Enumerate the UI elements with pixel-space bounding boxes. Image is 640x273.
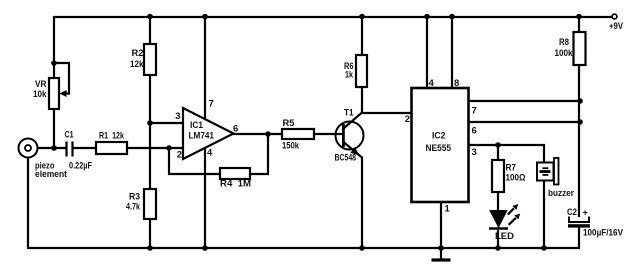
- svg-text:7: 7: [209, 99, 214, 110]
- svg-text:R8: R8: [559, 37, 569, 48]
- svg-text:IC1: IC1: [190, 120, 204, 131]
- svg-text:+: +: [583, 208, 588, 218]
- svg-text:buzzer: buzzer: [548, 188, 574, 199]
- svg-text:2: 2: [405, 114, 410, 125]
- svg-text:NE555: NE555: [426, 143, 452, 154]
- svg-text:8: 8: [454, 78, 459, 89]
- svg-text:3: 3: [472, 147, 477, 158]
- svg-text:R5: R5: [283, 118, 296, 129]
- svg-text:4.7k: 4.7k: [126, 202, 141, 213]
- svg-text:3: 3: [175, 111, 180, 122]
- svg-text:1: 1: [445, 204, 451, 215]
- svg-text:100Ω: 100Ω: [506, 173, 526, 184]
- svg-text:C1: C1: [65, 130, 75, 141]
- svg-text:150k: 150k: [282, 141, 300, 152]
- svg-text:12k: 12k: [130, 59, 144, 70]
- svg-text:7: 7: [472, 106, 477, 117]
- svg-text:R4 1M: R4 1M: [220, 179, 251, 190]
- svg-text:R1 12k: R1 12k: [99, 131, 125, 142]
- svg-text:1k: 1k: [345, 70, 354, 81]
- svg-text:10k: 10k: [33, 89, 47, 100]
- svg-text:T1: T1: [344, 108, 354, 119]
- svg-text:+9V: +9V: [609, 21, 623, 31]
- svg-text:4: 4: [429, 78, 435, 89]
- svg-text:100µF/16V: 100µF/16V: [583, 228, 624, 239]
- svg-text:BC548: BC548: [335, 153, 357, 164]
- svg-text:4: 4: [207, 148, 213, 159]
- svg-text:6: 6: [233, 124, 238, 135]
- svg-text:0.22µF: 0.22µF: [69, 161, 92, 172]
- svg-text:R2: R2: [132, 48, 144, 59]
- svg-text:LED: LED: [495, 231, 514, 242]
- svg-text:2: 2: [177, 150, 182, 161]
- svg-text:element: element: [35, 169, 68, 180]
- svg-text:LM741: LM741: [189, 131, 215, 142]
- svg-text:6: 6: [472, 126, 477, 137]
- svg-text:C2: C2: [567, 207, 577, 218]
- svg-text:100k: 100k: [555, 48, 574, 59]
- svg-text:IC2: IC2: [432, 131, 446, 142]
